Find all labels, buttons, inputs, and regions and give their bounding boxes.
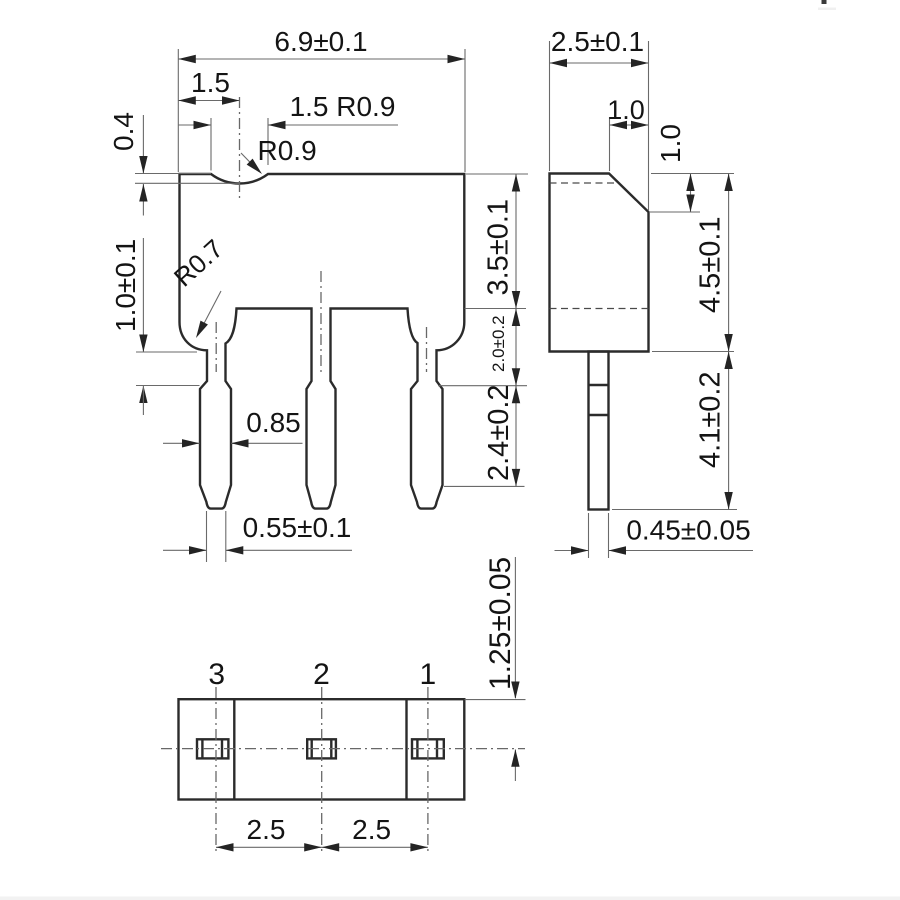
dimension 2.5±0.1 extension lines bbox=[549, 41, 551, 171]
dimension 1.5 R0.9 lines bbox=[178, 124, 211, 126]
dimension 1.5 R0.9 arrows bbox=[194, 121, 212, 129]
svg-text:1.0: 1.0 bbox=[607, 95, 645, 125]
bottom view lead 1 section bbox=[412, 739, 444, 758]
R0.7 leader arrow bbox=[192, 321, 208, 340]
bottom view lead 3 section bbox=[197, 739, 228, 758]
bottom view parting line left bbox=[233, 699, 235, 799]
centerline of top notch bbox=[239, 97, 241, 201]
dimension 2.5 pitch line bbox=[216, 846, 428, 848]
dimension 1.0±0.1 extension lines bbox=[136, 351, 197, 353]
dimension 6.9±0.1 extension line left bbox=[177, 49, 179, 172]
side view body outline bbox=[550, 174, 649, 352]
dimension 0.55±0.1 lines bbox=[163, 549, 207, 551]
dimension column line bbox=[515, 174, 517, 486]
dimension 0.55±0.1 arrows bbox=[189, 546, 207, 554]
dimension 0.4 arrows bbox=[139, 156, 147, 174]
dimension 0.4 lines bbox=[142, 115, 144, 174]
extension line lead step right bbox=[438, 385, 527, 387]
svg-text:2.0±0.2: 2.0±0.2 bbox=[489, 315, 508, 372]
dimension 3.5±0.1 arrows bbox=[512, 174, 520, 192]
side view hidden line upper (dashed) bbox=[550, 182, 617, 184]
side view lead tick marks bbox=[589, 384, 609, 386]
svg-text:1.0±0.1: 1.0±0.1 bbox=[110, 239, 141, 332]
svg-text:2.4±0.2: 2.4±0.2 bbox=[483, 384, 515, 481]
dimension 4.5/4.1 column line bbox=[728, 174, 730, 510]
cropped mark top edge bbox=[822, 0, 827, 4]
dimension 0.45±0.05 arrows bbox=[571, 546, 589, 554]
dimension 1.25±0.05 extension line bbox=[465, 699, 526, 701]
centerline lead 3 (left) front view bbox=[215, 322, 217, 372]
bottom view centerline lead 1 bbox=[427, 687, 429, 855]
dimension 1.25±0.05 arrows bbox=[511, 682, 519, 700]
dimension 2.5 pitch arrows a bbox=[216, 843, 234, 851]
extension line shoulder right bbox=[465, 308, 527, 310]
dimension 2.4±0.2 arrows bbox=[512, 386, 520, 404]
dimension 4.1±0.2 arrows bbox=[724, 352, 732, 370]
dimension 1.5 line bbox=[178, 100, 239, 102]
dimension 1.0±0.1 lower arrow bbox=[139, 386, 147, 404]
bottom view centerline lead 3 bbox=[215, 687, 217, 855]
dimension 6.9±0.1 arrows bbox=[178, 55, 196, 63]
extension line side top right bbox=[651, 173, 734, 175]
dimension 1.0 chamfer extension line bbox=[609, 117, 611, 171]
bottom view lead 2 section bbox=[307, 739, 336, 758]
extension line chamfer bottom bbox=[650, 211, 700, 213]
svg-text:1.5: 1.5 bbox=[191, 67, 230, 98]
svg-text:2.5: 2.5 bbox=[247, 814, 286, 845]
dimension 1.25±0.05 lines bbox=[514, 557, 516, 698]
dimension 2.0±0.2 arrows bbox=[512, 309, 520, 327]
svg-text:1: 1 bbox=[419, 658, 436, 691]
svg-text:2.5: 2.5 bbox=[352, 814, 391, 845]
dimension 2.5±0.1 arrows bbox=[550, 59, 568, 67]
side view hidden line lower (dashed) bbox=[550, 308, 649, 310]
R0.9 leader line bbox=[241, 153, 259, 172]
dimension 1.0±0.1 arrow bbox=[139, 335, 147, 353]
centerline lead 2 (middle) front view bbox=[320, 271, 322, 373]
svg-text:1.0: 1.0 bbox=[655, 124, 686, 163]
svg-text:0.4: 0.4 bbox=[108, 112, 139, 151]
R0.9 leader arrow bbox=[247, 159, 265, 177]
svg-text:4.1±0.2: 4.1±0.2 bbox=[695, 371, 727, 468]
dimension 0.55±0.1 extension lines bbox=[206, 511, 208, 562]
svg-text:R0.9: R0.9 bbox=[258, 135, 317, 166]
dimension 0.45±0.05 lines bbox=[555, 550, 589, 552]
extension line side bottom right bbox=[652, 351, 734, 353]
svg-text:1.5 R0.9: 1.5 R0.9 bbox=[290, 91, 396, 122]
dimension 1.0 chamfer arrows bbox=[610, 121, 628, 129]
svg-text:4.5±0.1: 4.5±0.1 bbox=[695, 216, 727, 313]
dimension 0.45±0.05 extension lines bbox=[588, 513, 590, 558]
svg-text:2.5±0.1: 2.5±0.1 bbox=[551, 26, 644, 57]
bottom view body outline bbox=[179, 699, 465, 799]
dimension 2.5±0.1 line bbox=[550, 62, 649, 64]
dimension 0.4 extension lines bbox=[135, 173, 211, 175]
extension line lead end right bbox=[612, 509, 737, 511]
svg-text:0.85: 0.85 bbox=[246, 407, 301, 438]
svg-text:R0.7: R0.7 bbox=[168, 233, 229, 292]
dimension 1.0 vertical arrows bbox=[686, 174, 694, 192]
dimension 1.5 R0.9 extension line right bbox=[267, 118, 269, 165]
svg-text:3: 3 bbox=[208, 658, 225, 691]
dimension 0.85 arrows bbox=[182, 439, 200, 447]
svg-text:1.25±0.05: 1.25±0.05 bbox=[484, 557, 517, 690]
svg-text:0.45±0.05: 0.45±0.05 bbox=[626, 515, 750, 546]
dimension 0.85 lines bbox=[163, 442, 200, 444]
centerline lead 1 (right) front view bbox=[426, 327, 428, 372]
svg-text:3.5±0.1: 3.5±0.1 bbox=[483, 199, 515, 296]
R0.7 leader line bbox=[199, 291, 221, 333]
side view lead outline bbox=[589, 352, 609, 510]
dimension 6.9±0.1 line bbox=[178, 58, 465, 60]
bottom view parting line right bbox=[405, 699, 407, 799]
front view package body outline with 3 leads bbox=[180, 174, 465, 509]
bottom view horizontal centerline bbox=[161, 748, 525, 750]
svg-text:0.55±0.1: 0.55±0.1 bbox=[243, 512, 352, 543]
dimension 1.0±0.1 line bbox=[142, 238, 144, 352]
svg-text:6.9±0.1: 6.9±0.1 bbox=[274, 26, 367, 57]
dimension 1.5 arrows bbox=[178, 96, 196, 104]
dimension 1.5 R0.9 extension line left bbox=[210, 118, 212, 171]
dimension 4.5±0.1 arrows bbox=[724, 174, 732, 192]
extension line lead wide-end right bbox=[444, 485, 525, 487]
svg-text:2: 2 bbox=[313, 658, 330, 691]
dimension 1.0 vertical line bbox=[690, 174, 692, 213]
dimension 2.5 pitch arrows b bbox=[322, 843, 340, 851]
extension line top edge right bbox=[466, 173, 528, 175]
dimension 1.0 chamfer line bbox=[610, 124, 649, 126]
dimension 6.9±0.1 extension line right bbox=[464, 49, 466, 172]
bottom view centerline lead 2 bbox=[321, 687, 323, 855]
faint bottom page strip bbox=[0, 897, 900, 900]
